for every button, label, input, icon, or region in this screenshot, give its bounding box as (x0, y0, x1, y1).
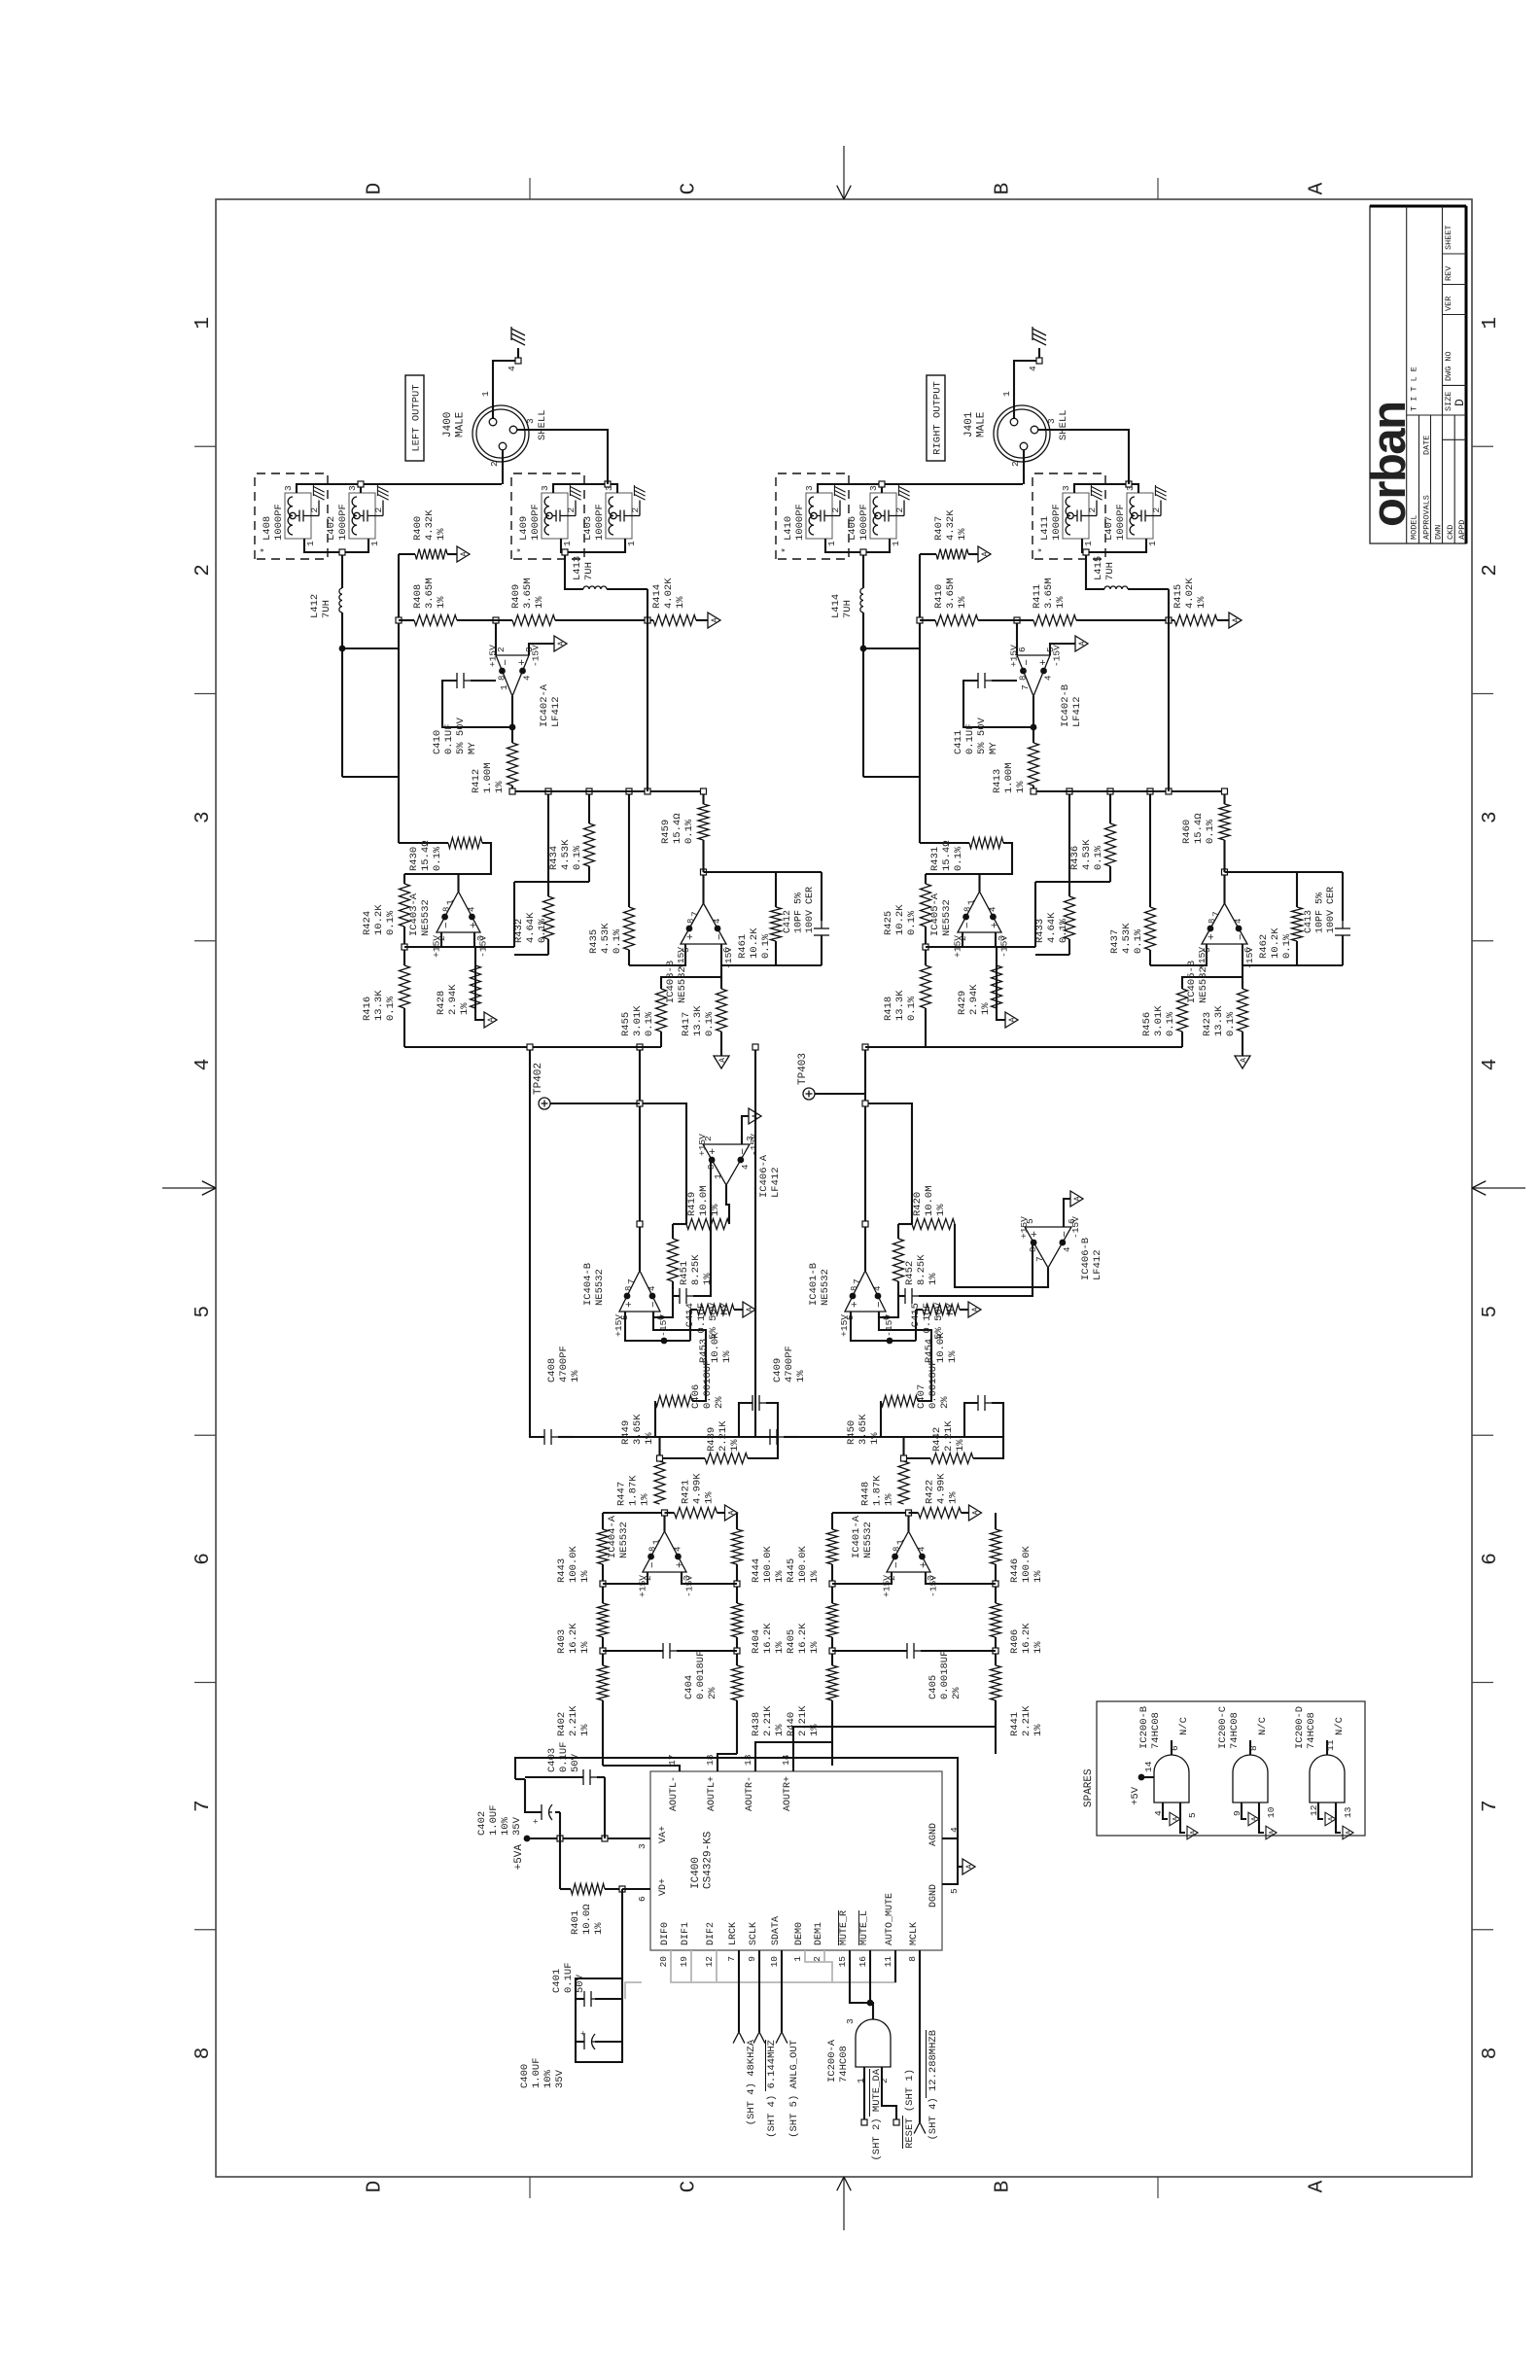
wire servo (865, 1103, 912, 1224)
svg-text:4: 4 (1063, 1247, 1072, 1252)
analog ground (714, 1056, 729, 1068)
svg-text:4: 4 (523, 676, 533, 681)
svg-text:3: 3 (347, 485, 358, 491)
junction (1166, 617, 1172, 623)
analog ground (457, 546, 470, 562)
junction (860, 646, 867, 652)
resistor R442 (904, 1457, 931, 1459)
svg-text:NE5532: NE5532 (820, 1269, 831, 1306)
svg-text:10.0M: 10.0M (924, 1185, 935, 1216)
svg-text:100V CER: 100V CER (1326, 887, 1337, 933)
svg-text:74HC08: 74HC08 (1150, 1712, 1162, 1749)
wire modB pin1 (561, 539, 625, 552)
svg-text:R404: R404 (751, 1629, 762, 1654)
svg-text:1%: 1% (702, 1273, 714, 1285)
svg-text:0.1%: 0.1% (385, 910, 397, 935)
svg-text:DWN: DWN (1434, 525, 1444, 540)
op-amp IC406-B (1025, 1227, 1071, 1268)
svg-text:2: 2 (1151, 507, 1162, 513)
svg-text:IC406-A: IC406-A (758, 1154, 770, 1198)
svg-text:2: 2 (566, 507, 577, 513)
svg-text:0.1%: 0.1% (1058, 918, 1069, 943)
resistor R400 (399, 553, 415, 555)
svg-text:8: 8 (1207, 919, 1217, 924)
svg-text:NE5532: NE5532 (594, 1269, 606, 1306)
op-amp IC404-B (619, 1271, 660, 1312)
svg-text:7UH: 7UH (583, 562, 595, 580)
op-amp IC404-A (643, 1531, 686, 1572)
wire fb loop (1225, 871, 1344, 873)
svg-text:C401: C401 (551, 1969, 563, 1993)
svg-text:3.01K: 3.01K (632, 1005, 644, 1036)
svg-text:SCLK: SCLK (749, 1922, 759, 1945)
svg-text:(SHT 4) 6.144MHZ: (SHT 4) 6.144MHZ (766, 2040, 778, 2138)
resistor R405 (827, 1603, 838, 1637)
svg-text:4: 4 (673, 1547, 682, 1552)
svg-text:0.1%: 0.1% (683, 819, 695, 844)
wire rail top (398, 554, 400, 843)
svg-text:IC200-D: IC200-D (1294, 1706, 1306, 1749)
capacitor C408 (558, 1436, 574, 1438)
capacitor C404 (603, 1650, 663, 1652)
svg-text:3: 3 (525, 418, 536, 424)
svg-text:−: − (441, 922, 453, 928)
svg-text:C406: C406 (690, 1384, 702, 1409)
svg-text:+: + (685, 933, 697, 940)
wire pin2 (1023, 450, 1025, 484)
svg-text:1%: 1% (980, 1002, 992, 1015)
test point TP402 (539, 1098, 550, 1109)
svg-text:N/C: N/C (1334, 1717, 1346, 1735)
svg-text:1: 1 (895, 1539, 906, 1545)
svg-text:2.94K: 2.94K (968, 984, 980, 1015)
svg-text:1%: 1% (1032, 1724, 1044, 1736)
svg-text:74HC08: 74HC08 (838, 2046, 850, 2082)
svg-text:R414: R414 (651, 584, 663, 609)
svg-text:10.2K: 10.2K (373, 904, 385, 935)
svg-text:19: 19 (679, 1956, 689, 1968)
wire +in line (513, 882, 515, 947)
svg-text:5% 50V: 5% 50V (455, 717, 467, 754)
svg-text:AOUTR+: AOUTR+ (783, 1776, 793, 1811)
capacitor C403 (604, 1777, 606, 1838)
svg-text:5: 5 (1187, 1812, 1198, 1818)
capacitor C411 (992, 680, 1017, 682)
svg-text:16.2K: 16.2K (568, 1623, 579, 1654)
wire -in row (653, 1281, 673, 1317)
resistor R430 (399, 842, 448, 844)
svg-text:C402: C402 (476, 1811, 488, 1836)
analog ground (708, 612, 720, 628)
svg-text:0.1UF: 0.1UF (696, 1303, 708, 1334)
svg-text:1%: 1% (729, 1439, 741, 1452)
svg-text:C411: C411 (953, 730, 964, 754)
wire modB pin1 (1082, 539, 1146, 552)
svg-text:+: + (579, 2031, 589, 2036)
svg-text:NE5532: NE5532 (1198, 966, 1209, 1003)
junction (923, 944, 928, 950)
svg-text:D: D (1452, 399, 1467, 406)
svg-text:R431: R431 (929, 847, 941, 871)
svg-text:R447: R447 (616, 1482, 628, 1506)
svg-text:SHELL: SHELL (537, 409, 548, 440)
resistor R459 (698, 804, 709, 840)
junction (339, 646, 346, 652)
gate IC200-A 74HC08 (856, 2019, 891, 2067)
svg-text:74HC08: 74HC08 (1306, 1712, 1317, 1749)
wire gate in2 (882, 2067, 896, 2122)
svg-text:7: 7 (1211, 911, 1222, 917)
resistor R441 (991, 1665, 1001, 1700)
svg-text:13.3K: 13.3K (894, 990, 906, 1021)
svg-text:2%: 2% (939, 1396, 951, 1409)
svg-text:2: 2 (1010, 461, 1021, 467)
svg-text:-15V: -15V (683, 1575, 694, 1597)
svg-text:R461: R461 (737, 934, 749, 959)
svg-text:A: A (1232, 617, 1241, 622)
svg-text:NE5532: NE5532 (420, 899, 432, 936)
svg-text:+: + (624, 1301, 636, 1308)
svg-text:R407: R407 (933, 516, 945, 541)
svg-text:7: 7 (690, 911, 701, 917)
svg-text:APPROVALS: APPROVALS (1422, 495, 1432, 540)
svg-text:SDATA: SDATA (771, 1916, 782, 1945)
svg-text:4.02K: 4.02K (1184, 577, 1196, 609)
svg-text:NE5532: NE5532 (618, 1522, 630, 1558)
filter module L406 (870, 493, 896, 539)
svg-text:16.2K: 16.2K (1021, 1623, 1032, 1654)
svg-text:1%: 1% (957, 528, 968, 541)
op-amp IC405-A (958, 892, 1001, 932)
resistor R453 (689, 1310, 691, 1341)
capacitor C406 (739, 1403, 752, 1437)
junction (917, 617, 923, 623)
svg-text:LF412: LF412 (550, 696, 562, 727)
svg-text:L407: L407 (1103, 516, 1115, 541)
svg-text:*: * (781, 547, 792, 553)
svg-text:AUTO_MUTE: AUTO_MUTE (885, 1893, 895, 1945)
svg-text:−: − (647, 1561, 659, 1568)
svg-text:3.65M: 3.65M (424, 577, 436, 609)
svg-text:-15V: -15V (477, 935, 488, 958)
svg-text:0.1%: 0.1% (1133, 928, 1144, 954)
svg-text:3: 3 (1046, 418, 1057, 424)
svg-text:13.3K: 13.3K (1213, 1005, 1225, 1036)
svg-text:35V: 35V (554, 2069, 566, 2088)
svg-text:100.0K: 100.0K (1021, 1545, 1032, 1583)
analog ground (978, 546, 991, 562)
svg-text:+15V: +15V (953, 935, 963, 958)
svg-text:1: 1 (562, 541, 573, 546)
svg-text:15.4Ω: 15.4Ω (672, 813, 683, 844)
svg-text:R420: R420 (912, 1192, 924, 1216)
svg-text:14: 14 (781, 1754, 791, 1766)
svg-text:AOUTL+: AOUTL+ (707, 1776, 717, 1811)
svg-text:1%: 1% (947, 1350, 959, 1363)
svg-text:B: B (993, 2181, 1015, 2193)
chassis ground (1032, 338, 1046, 345)
svg-text:R430: R430 (408, 847, 420, 871)
op-amp IC403-B (681, 903, 726, 944)
svg-text:2.21K: 2.21K (797, 1705, 809, 1736)
svg-text:AOUTR-: AOUTR- (745, 1776, 755, 1811)
svg-text:IC200-B: IC200-B (1138, 1706, 1150, 1749)
analog ground (725, 1505, 738, 1521)
svg-text:1%: 1% (534, 596, 545, 609)
svg-text:A: A (1078, 641, 1087, 646)
wire output (663, 1513, 665, 1531)
svg-text:A: A (718, 1058, 727, 1063)
svg-text:VD+: VD+ (658, 1878, 669, 1896)
svg-text:IC401-A: IC401-A (851, 1515, 862, 1558)
svg-text:100.0K: 100.0K (797, 1545, 809, 1583)
resistor R407 (920, 553, 936, 555)
svg-text:0.1UF: 0.1UF (964, 723, 976, 754)
svg-text:4.32K: 4.32K (945, 509, 957, 541)
svg-text:+: + (990, 922, 1001, 928)
connector J400 XLR (472, 405, 529, 462)
wire +5VA rail (527, 1837, 650, 1839)
svg-text:DIF1: DIF1 (681, 1922, 691, 1945)
svg-text:R454: R454 (924, 1339, 935, 1363)
svg-text:MY: MY (467, 742, 478, 754)
svg-text:1%: 1% (570, 1370, 581, 1382)
wire C400 loop (621, 1889, 623, 1978)
svg-text:R436: R436 (1069, 846, 1081, 870)
svg-text:3.65K: 3.65K (632, 1414, 644, 1445)
svg-text:7: 7 (1020, 684, 1031, 690)
resistor R434 (514, 881, 589, 883)
svg-text:6: 6 (637, 1896, 647, 1902)
wire out B (1223, 872, 1225, 903)
resistor R404 (732, 1603, 743, 1637)
wire node (404, 946, 514, 948)
junction (901, 1455, 907, 1461)
svg-text:J401: J401 (963, 411, 975, 437)
svg-text:4.99K: 4.99K (936, 1473, 948, 1504)
svg-text:C412: C412 (783, 910, 793, 933)
wire AOUT- leg (602, 1700, 604, 1766)
svg-text:−: − (1236, 933, 1247, 940)
svg-text:+: + (1030, 1231, 1041, 1238)
svg-text:3: 3 (192, 811, 215, 823)
svg-text:1%: 1% (721, 1350, 733, 1363)
svg-text:1: 1 (305, 541, 316, 546)
svg-text:A: A (557, 641, 566, 646)
svg-text:7: 7 (726, 1956, 737, 1962)
junction (637, 1221, 643, 1227)
svg-text:8: 8 (686, 919, 696, 924)
analog ground (1235, 1056, 1250, 1068)
wire filter node bus (574, 1436, 778, 1438)
svg-text:1%: 1% (675, 596, 686, 609)
svg-text:4.64K: 4.64K (1046, 912, 1058, 943)
svg-text:L412: L412 (309, 594, 321, 618)
wire +in (926, 1572, 996, 1584)
svg-text:R425: R425 (883, 911, 894, 935)
label box LEFT OUTPUT (405, 375, 424, 461)
wire servo out (955, 1224, 1048, 1287)
svg-text:SPARES: SPARES (1083, 1768, 1095, 1807)
svg-text:8: 8 (192, 2047, 215, 2060)
wire out (978, 874, 980, 892)
gate IC200-D (1310, 1755, 1345, 1802)
svg-text:7: 7 (1480, 1800, 1502, 1812)
svg-text:8: 8 (1029, 1247, 1038, 1252)
svg-text:1%: 1% (710, 1204, 721, 1216)
wire legA drop (863, 647, 920, 649)
junction (701, 788, 707, 794)
svg-text:R405: R405 (786, 1629, 797, 1654)
inductor L412 (339, 588, 342, 612)
svg-text:1%: 1% (869, 1432, 881, 1445)
wire servo out (511, 696, 513, 743)
svg-text:A: A (711, 617, 719, 622)
svg-text:R428: R428 (436, 991, 447, 1015)
gate IC200-C (1233, 1755, 1268, 1802)
svg-text:100.0K: 100.0K (568, 1545, 579, 1583)
wire +in gnd (742, 1116, 749, 1144)
svg-text:R437: R437 (1109, 929, 1121, 954)
svg-text:NE5532: NE5532 (941, 899, 953, 936)
svg-text:C403: C403 (546, 1748, 558, 1772)
svg-text:1000PF: 1000PF (1051, 504, 1063, 541)
filter module L407 (1127, 493, 1153, 539)
svg-text:C415: C415 (910, 1303, 922, 1327)
svg-text:−: − (874, 1301, 886, 1308)
capacitor C414 (673, 1295, 680, 1297)
svg-text:D: D (365, 183, 387, 195)
wire pin3 (1038, 430, 1129, 484)
svg-text:R413: R413 (992, 769, 1003, 793)
junction (906, 1510, 912, 1516)
svg-text:13.3K: 13.3K (373, 990, 385, 1021)
filter module L403 (606, 493, 632, 539)
svg-text:C400: C400 (519, 2064, 531, 2088)
svg-text:R462: R462 (1258, 934, 1270, 959)
svg-text:1: 1 (499, 684, 509, 690)
svg-text:-15V: -15V (1052, 645, 1063, 667)
svg-text:6: 6 (1480, 1553, 1502, 1565)
resistor R415 (1174, 615, 1217, 626)
svg-text:B: B (993, 183, 1015, 195)
svg-text:0.1UF: 0.1UF (563, 1962, 575, 1993)
svg-text:8.25K: 8.25K (916, 1254, 927, 1285)
svg-text:LF412: LF412 (1071, 696, 1083, 727)
wire AGND stub (942, 1837, 958, 1839)
svg-text:1000PF: 1000PF (858, 504, 870, 541)
svg-text:8: 8 (907, 1956, 918, 1962)
capacitor C409 (784, 1436, 799, 1438)
svg-text:1%: 1% (948, 1491, 960, 1504)
resistor R450 (880, 1401, 882, 1437)
svg-text:+: + (850, 1301, 861, 1308)
svg-text:+: + (1207, 933, 1218, 940)
power +5VA (524, 1836, 531, 1842)
svg-text:1000PF: 1000PF (273, 504, 285, 541)
svg-text:R444: R444 (751, 1558, 762, 1583)
op-amp IC401-A (887, 1531, 930, 1572)
svg-text:VER: VER (1444, 297, 1453, 311)
svg-text:10.0Ω: 10.0Ω (581, 1904, 593, 1935)
resistor R424 (403, 927, 405, 947)
resistor R420 (898, 1223, 912, 1225)
svg-text:1%: 1% (935, 1204, 947, 1216)
wire legA drop (342, 647, 399, 649)
svg-text:A: A (981, 551, 990, 556)
junction (657, 1455, 663, 1461)
svg-text:2: 2 (894, 507, 905, 513)
wire -in row (879, 1281, 898, 1317)
svg-text:+15V: +15V (613, 1314, 624, 1337)
wire fb loop (704, 871, 822, 873)
svg-text:R409: R409 (510, 584, 522, 609)
svg-text:R441: R441 (1009, 1712, 1021, 1736)
svg-text:4: 4 (988, 907, 997, 912)
wire filter out (639, 1047, 641, 1271)
junction (396, 617, 402, 623)
analog ground (484, 1012, 497, 1028)
svg-text:-15V: -15V (531, 645, 542, 667)
svg-text:R403: R403 (556, 1629, 568, 1654)
svg-text:D: D (365, 2181, 387, 2193)
svg-text:4: 4 (1044, 676, 1054, 681)
svg-text:+15V: +15V (882, 1575, 892, 1597)
svg-text:4: 4 (1234, 919, 1243, 924)
svg-text:10.2K: 10.2K (749, 927, 760, 959)
resistor R443 (598, 1529, 609, 1564)
svg-text:1%: 1% (593, 1922, 605, 1935)
inductor L415 (1128, 588, 1169, 590)
svg-text:R411: R411 (1032, 584, 1043, 609)
junction (402, 944, 407, 950)
svg-text:L403: L403 (582, 516, 594, 541)
wire AOUTR- (755, 1742, 832, 1771)
svg-text:A: A (965, 1864, 974, 1869)
svg-text:1: 1 (792, 1956, 803, 1962)
svg-text:MY: MY (988, 742, 999, 754)
svg-text:*: * (260, 547, 271, 553)
svg-text:10.2K: 10.2K (894, 904, 906, 935)
svg-text:15: 15 (837, 1956, 848, 1968)
svg-text:4: 4 (917, 1547, 927, 1552)
svg-text:4: 4 (1028, 366, 1038, 371)
svg-text:1%: 1% (579, 1724, 591, 1736)
svg-text:−: − (892, 1561, 903, 1568)
junction (645, 617, 650, 623)
svg-text:R434: R434 (548, 846, 560, 870)
svg-text:(SHT 4) 12.288MHZB: (SHT 4) 12.288MHZB (927, 2030, 939, 2140)
resistor R421 (665, 1512, 675, 1514)
svg-text:IC402-B: IC402-B (1060, 684, 1071, 727)
wire rail (399, 619, 414, 621)
svg-text:1%: 1% (704, 1491, 716, 1504)
wire modB pin3 (553, 484, 617, 493)
resistor R438 (732, 1665, 743, 1700)
resistor R451 (668, 1239, 679, 1281)
svg-text:MUTE_R: MUTE_R (839, 1910, 850, 1945)
svg-text:4.02K: 4.02K (663, 577, 675, 609)
svg-text:A: A (746, 1307, 754, 1312)
svg-text:1: 1 (445, 899, 456, 905)
wire -in (832, 1572, 892, 1584)
svg-text:L414: L414 (830, 594, 842, 618)
svg-text:1%: 1% (884, 1493, 895, 1506)
svg-text:17: 17 (667, 1755, 678, 1766)
wire rail (920, 619, 935, 621)
resistor R462 (1296, 941, 1298, 965)
svg-text:3.01K: 3.01K (1153, 1005, 1165, 1036)
